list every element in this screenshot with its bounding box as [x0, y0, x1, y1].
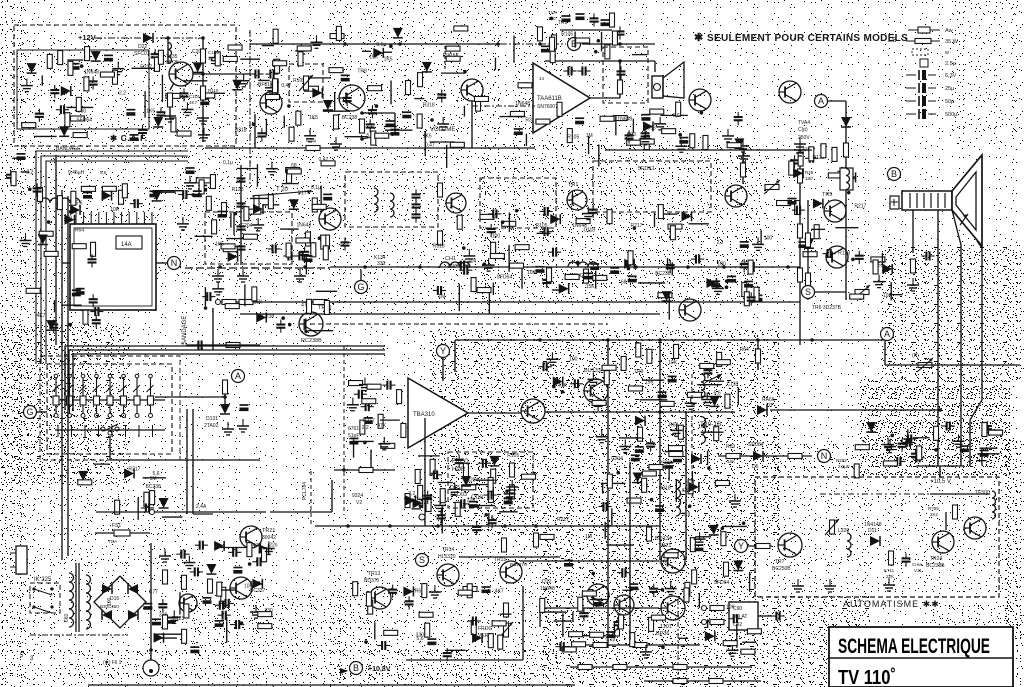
ground — [217, 282, 219, 289]
diode — [323, 100, 333, 110]
wire — [560, 29, 612, 31]
svg-text:15K: 15K — [727, 459, 735, 464]
resistor — [438, 231, 443, 245]
capacitor — [668, 375, 677, 377]
capacitor — [364, 417, 373, 419]
wire — [465, 484, 490, 486]
transistor TN21 — [661, 549, 685, 573]
transistor TR23 — [179, 594, 197, 612]
resistor — [488, 489, 493, 503]
svg-text:35 W: 35 W — [945, 39, 959, 45]
resistor — [321, 235, 326, 249]
capacitor — [186, 167, 195, 169]
svg-text:S: S — [805, 287, 811, 297]
svg-text:1N648: 1N648 — [617, 116, 632, 122]
junction — [597, 39, 601, 43]
resistor — [703, 135, 708, 149]
resistor — [536, 119, 550, 124]
svg-text:SFD84: SFD84 — [748, 442, 764, 448]
resistor — [673, 665, 687, 670]
junction — [201, 36, 205, 40]
capacitor — [443, 652, 452, 654]
resistor — [243, 234, 257, 239]
resistor — [371, 131, 376, 145]
capacitor — [616, 30, 625, 32]
ground — [957, 434, 959, 441]
wire — [685, 412, 687, 560]
svg-text:FROG: FROG — [478, 626, 493, 632]
svg-text:5,6: 5,6 — [673, 113, 680, 119]
ground — [717, 281, 719, 288]
junction — [248, 562, 252, 566]
resistor — [401, 423, 406, 437]
svg-text:SANDAGE: SANDAGE — [182, 316, 188, 345]
resistor — [883, 461, 897, 466]
diode — [624, 259, 634, 269]
wire — [430, 141, 455, 143]
junction — [707, 466, 711, 470]
resistor — [384, 630, 398, 635]
resistor — [627, 498, 641, 503]
wire — [930, 493, 990, 495]
transistor — [446, 193, 466, 213]
automatisme dashed box — [755, 477, 999, 597]
svg-text:BC250B: BC250B — [772, 566, 791, 572]
svg-text:R105: R105 — [507, 453, 519, 459]
bridge diode — [102, 584, 112, 594]
IC pin — [121, 212, 123, 224]
svg-text:C114: C114 — [189, 94, 200, 99]
junction — [28, 187, 32, 191]
junction — [252, 123, 256, 127]
svg-text:BP36: BP36 — [656, 631, 669, 637]
junction — [343, 42, 347, 46]
diode — [866, 422, 876, 432]
transistor TR13 — [369, 587, 391, 609]
wire bus — [570, 666, 752, 668]
svg-text:1K: 1K — [208, 56, 214, 61]
wire — [192, 409, 194, 514]
resistor — [510, 485, 515, 499]
capacitor — [617, 70, 626, 72]
capacitor — [298, 252, 300, 261]
audio chain cluster — [223, 26, 532, 156]
ground — [659, 117, 661, 124]
capacitor — [151, 53, 160, 55]
junction — [462, 246, 466, 250]
IC pin — [75, 212, 77, 224]
resistor — [298, 52, 303, 66]
vert drive cluster — [353, 582, 512, 662]
resistor — [215, 52, 220, 66]
svg-text:0,1µ: 0,1µ — [376, 42, 386, 48]
svg-text:D22: D22 — [138, 44, 147, 50]
wire — [770, 409, 940, 411]
node G — [355, 281, 368, 294]
coil TE500 — [992, 491, 996, 519]
resistor — [582, 591, 596, 596]
junction — [616, 471, 620, 475]
capacitor — [695, 255, 697, 264]
resistor — [498, 635, 503, 649]
capacitor — [349, 437, 358, 439]
capacitor — [694, 544, 703, 546]
transformer core — [75, 563, 77, 632]
resistor — [166, 93, 180, 98]
wire — [226, 238, 250, 240]
wire loop — [65, 346, 385, 410]
diode — [559, 284, 569, 294]
resistor — [613, 665, 627, 670]
capacitor — [740, 263, 749, 265]
wire — [709, 380, 724, 382]
yoke funnel — [952, 155, 982, 246]
diode — [289, 199, 299, 209]
capacitor — [323, 193, 332, 195]
wire bus — [575, 644, 700, 646]
junction — [786, 265, 790, 269]
node N — [168, 257, 181, 270]
wire bus — [240, 313, 660, 315]
wire bus — [605, 149, 812, 151]
svg-text:1N4148: 1N4148 — [864, 522, 882, 528]
dashed wire — [444, 46, 446, 70]
junction — [363, 265, 367, 269]
wire — [885, 364, 1020, 366]
transistor TR9 — [339, 85, 365, 111]
svg-text:10K: 10K — [726, 605, 736, 611]
ground — [243, 74, 245, 81]
wire — [689, 223, 709, 225]
diode — [124, 468, 134, 478]
svg-text:C77: C77 — [149, 589, 158, 595]
resistor — [562, 647, 576, 652]
wire — [34, 135, 57, 137]
svg-text:4K7: 4K7 — [37, 313, 46, 319]
wire — [678, 637, 688, 639]
junction — [364, 640, 368, 644]
resistor — [854, 464, 859, 478]
wire — [815, 291, 846, 293]
svg-text:TR13: TR13 — [368, 571, 380, 577]
svg-text:HOR: HOR — [452, 467, 466, 473]
resistor — [540, 598, 545, 612]
wire — [660, 114, 687, 116]
ground — [587, 207, 589, 214]
capacitor — [747, 296, 756, 298]
svg-text:SCHEMA ELECTRIQUE: SCHEMA ELECTRIQUE — [838, 635, 990, 658]
svg-text:TR23: TR23 — [172, 616, 184, 622]
resistor — [583, 269, 588, 283]
resistor — [592, 400, 606, 405]
svg-text:N: N — [821, 451, 828, 461]
diode — [643, 121, 653, 131]
capacitor — [469, 501, 478, 503]
resistor — [471, 620, 476, 634]
capacitor — [60, 105, 62, 114]
capacitor — [138, 129, 147, 131]
svg-text:R282: R282 — [836, 458, 847, 463]
wire — [424, 131, 426, 156]
capacitor — [544, 207, 546, 216]
transistor — [778, 533, 802, 557]
capacitor — [87, 258, 96, 260]
resistor — [360, 119, 365, 133]
resistor — [244, 207, 249, 221]
diode — [252, 579, 262, 589]
svg-text:1M: 1M — [585, 534, 592, 540]
wire — [619, 437, 642, 439]
capacitor — [635, 446, 644, 448]
node S — [802, 286, 815, 299]
svg-text:100: 100 — [764, 236, 773, 242]
wire — [499, 511, 518, 513]
diode — [154, 633, 164, 643]
capacitor — [460, 499, 462, 508]
svg-text:FS1: FS1 — [112, 523, 121, 529]
wire — [153, 190, 183, 192]
resistor — [664, 553, 678, 558]
resistor — [163, 615, 168, 629]
svg-text:15K: 15K — [369, 55, 379, 61]
wire — [642, 379, 664, 381]
diode — [413, 498, 423, 508]
resistor — [578, 597, 583, 611]
svg-text:V2: V2 — [356, 500, 362, 506]
svg-text:CH1: CH1 — [445, 256, 456, 262]
capacitor — [679, 137, 688, 139]
capacitor — [180, 550, 182, 559]
resistor — [39, 231, 53, 236]
svg-text:2,2µF: 2,2µF — [838, 464, 850, 469]
ground — [309, 129, 311, 136]
wire — [441, 506, 443, 533]
svg-text:SFD64: SFD64 — [497, 275, 513, 281]
node A — [815, 95, 828, 108]
psu right cluster — [176, 541, 277, 654]
capacitor — [287, 252, 289, 261]
junction — [591, 572, 595, 576]
wire — [500, 613, 512, 615]
resistor — [578, 665, 592, 670]
resistor — [727, 143, 741, 148]
transistor TR22 — [230, 577, 252, 599]
wire bus — [455, 339, 885, 341]
resistor — [208, 579, 213, 593]
ground — [592, 372, 594, 379]
diode — [38, 235, 48, 245]
coil CH1 — [440, 262, 470, 267]
capacitor — [343, 97, 352, 99]
ground — [742, 139, 744, 146]
wire — [240, 165, 242, 265]
capacitor — [197, 341, 199, 350]
junction — [658, 410, 662, 414]
svg-text:68: 68 — [621, 279, 627, 285]
capacitor — [734, 116, 743, 118]
diode — [228, 252, 238, 262]
svg-text:100: 100 — [492, 233, 501, 239]
svg-text:100: 100 — [717, 261, 726, 267]
wire — [653, 213, 655, 227]
svg-text:C105: C105 — [208, 50, 219, 55]
wire — [155, 633, 182, 635]
resistor — [593, 275, 607, 280]
resistor — [212, 220, 217, 234]
resistor — [68, 61, 73, 75]
resistor — [798, 268, 803, 282]
svg-text:B30C450: B30C450 — [100, 604, 119, 609]
wire — [385, 129, 413, 131]
capacitor — [237, 245, 246, 247]
svg-text:SEULEMENT POUR CERTAINS MOD: SEULEMENT POUR CERTAINS MODELS — [707, 33, 908, 44]
resistor — [798, 152, 803, 166]
wire — [155, 396, 225, 398]
wire — [952, 210, 961, 466]
wire — [331, 480, 333, 512]
capacitor — [733, 614, 735, 623]
wire — [414, 98, 424, 100]
resistor — [450, 142, 464, 147]
ground — [434, 585, 436, 592]
svg-text:1N648: 1N648 — [84, 70, 99, 76]
wire bus — [205, 147, 535, 149]
transistor TR20 — [319, 208, 341, 230]
diode C2 — [841, 117, 851, 127]
resistor — [102, 186, 116, 191]
diode — [804, 238, 814, 248]
junction — [360, 111, 364, 115]
IC pin — [143, 212, 145, 224]
resistor — [336, 26, 341, 40]
svg-text:2,2: 2,2 — [717, 240, 724, 246]
wire — [265, 119, 267, 136]
svg-text:C(p): C(p) — [798, 127, 808, 133]
ground — [727, 129, 729, 136]
resistor — [670, 226, 675, 240]
capacitor — [915, 453, 917, 462]
selector outer dashed — [40, 356, 180, 460]
resistor — [590, 632, 604, 637]
wire — [263, 204, 279, 206]
resistor — [537, 27, 542, 41]
capacitor — [233, 567, 242, 569]
svg-text:4K7: 4K7 — [495, 589, 504, 595]
legend symbol — [912, 49, 928, 55]
wire — [167, 38, 169, 64]
dashed line PCL784 — [310, 471, 312, 524]
resistor — [221, 587, 226, 601]
ground — [468, 249, 470, 256]
resistor — [621, 356, 626, 370]
resistor — [115, 500, 120, 514]
capacitor — [960, 445, 969, 447]
transistor TR1 — [567, 190, 587, 210]
svg-text:(R): (R) — [912, 353, 919, 359]
capacitor — [437, 286, 439, 295]
resistor — [307, 299, 312, 313]
IC pin — [83, 212, 85, 224]
ground — [690, 396, 692, 403]
capacitor — [535, 266, 544, 268]
svg-text:PCL784: PCL784 — [302, 482, 308, 500]
wire — [186, 344, 260, 346]
svg-text:R64: R64 — [75, 228, 84, 234]
wire — [406, 659, 523, 661]
svg-text:TOA: TOA — [108, 539, 117, 544]
wire — [353, 439, 355, 457]
resistor — [226, 343, 240, 348]
IC pin parts cluster — [70, 184, 182, 215]
junction — [201, 72, 205, 76]
resistor — [798, 224, 803, 238]
diode — [553, 377, 563, 387]
capacitor — [658, 391, 667, 393]
selector switch — [109, 378, 111, 396]
wire — [476, 479, 495, 481]
node A — [232, 370, 245, 383]
wire — [62, 262, 70, 264]
capacitor — [427, 638, 436, 640]
capacitor — [703, 369, 712, 371]
junction — [938, 408, 942, 412]
resistor — [723, 641, 737, 646]
wire — [354, 440, 374, 442]
wire — [224, 383, 226, 404]
junction — [847, 191, 851, 195]
ground — [268, 541, 270, 548]
IC module inner — [74, 228, 152, 306]
junction — [342, 468, 346, 472]
resistor — [297, 46, 311, 51]
resistor — [803, 252, 817, 257]
ground — [182, 217, 184, 224]
ground — [257, 218, 259, 225]
resistor — [953, 505, 958, 519]
svg-text:TR5: TR5 — [822, 192, 832, 198]
ground — [645, 645, 647, 652]
resistor — [716, 360, 730, 365]
resistor — [254, 195, 259, 209]
resistor — [463, 587, 477, 592]
wire — [162, 516, 183, 518]
resistor — [540, 534, 554, 539]
svg-text:TR24: TR24 — [930, 556, 942, 562]
svg-text:5FDK1: 5FDK1 — [638, 166, 655, 172]
ground — [454, 482, 456, 489]
svg-text:500µ: 500µ — [945, 112, 958, 118]
resistor — [463, 463, 468, 477]
wire — [66, 106, 93, 108]
ground — [797, 579, 799, 586]
junction — [538, 42, 542, 46]
resistor — [982, 423, 987, 437]
diode D22 — [143, 33, 153, 43]
wire — [668, 466, 670, 481]
diode — [550, 214, 560, 224]
svg-text:5,6: 5,6 — [417, 636, 424, 642]
resistor — [418, 485, 423, 499]
svg-text:9,45µH: 9,45µH — [68, 170, 85, 176]
ground — [117, 62, 119, 69]
resistor — [446, 46, 460, 51]
ground — [601, 430, 603, 437]
transformer T20 primary — [701, 374, 705, 398]
resistor — [426, 498, 431, 512]
transistor — [964, 517, 986, 539]
svg-text:✱: ✱ — [694, 32, 703, 44]
diode — [253, 204, 263, 214]
